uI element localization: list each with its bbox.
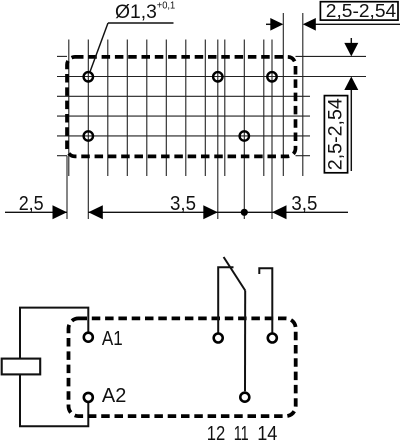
hole 12 (top-middle) xyxy=(213,72,222,81)
svg-text:Ø1,3: Ø1,3 xyxy=(115,2,157,23)
svg-text:3,5: 3,5 xyxy=(291,192,317,215)
svg-text:2,5: 2,5 xyxy=(19,192,44,215)
svg-text:12: 12 xyxy=(207,422,226,441)
arrow down-pointing (tip y=56.4) xyxy=(344,43,358,57)
arrow up-pointing (tip y=76.5) xyxy=(344,77,358,91)
grid horizontal lines xyxy=(57,56,366,155)
terminal A2 xyxy=(84,393,93,402)
svg-text:2,5-2,54: 2,5-2,54 xyxy=(326,98,347,170)
arrow left-pointing (tip at x=302.8) xyxy=(303,18,316,31)
coil wire loop xyxy=(20,308,88,427)
hole A1 (top-left) xyxy=(84,72,93,81)
svg-text:14: 14 xyxy=(257,422,277,441)
extension lines for top-right dimension xyxy=(283,13,303,40)
junction dot at pin 11 column xyxy=(241,209,248,216)
contact 14 wire xyxy=(259,268,272,333)
arrow right-pointing (tip x=217.8) xyxy=(203,205,218,219)
arrow right-pointing (tip x=67) xyxy=(53,205,68,219)
coil box xyxy=(2,359,41,375)
svg-text:+0,1: +0,1 xyxy=(157,0,176,11)
hole A2 (bottom-left) xyxy=(84,131,93,140)
hole row lines xyxy=(57,77,366,136)
svg-text:2,5-2,54: 2,5-2,54 xyxy=(326,0,396,21)
terminal 11 xyxy=(240,393,249,402)
contact 11 wire xyxy=(244,291,246,392)
relay outline (dashed bold rounded rect) xyxy=(67,57,296,156)
terminal 12 xyxy=(214,334,223,343)
arrow left-pointing (tip x=271.5) xyxy=(272,205,287,219)
terminal A1 xyxy=(84,333,93,342)
svg-text:3,5: 3,5 xyxy=(170,192,196,215)
svg-text:A2: A2 xyxy=(102,385,126,407)
grid vertical lines (2.54mm raster) xyxy=(69,40,303,177)
contact 12 wire xyxy=(218,267,233,333)
svg-text:A1: A1 xyxy=(102,328,123,350)
extension line left edge xyxy=(66,156,68,219)
switch blade (11 to 12) xyxy=(224,257,246,291)
hole 11 (bottom-middle) xyxy=(240,131,249,140)
right-side vertical dimension xyxy=(350,38,352,171)
bottom dimension line xyxy=(5,211,67,213)
leader line for hole diameter xyxy=(90,23,174,72)
top-right dimension line xyxy=(266,23,400,25)
label box 2,5-2,54 (right side, rotated) xyxy=(324,96,347,173)
terminal 14 xyxy=(268,334,277,343)
svg-text:11: 11 xyxy=(234,422,249,441)
pin column lines (extend to bottom dimension line) xyxy=(88,40,272,220)
relay outline (dashed) xyxy=(69,318,296,416)
hole 14 (top-right) xyxy=(267,72,276,81)
arrow right-pointing (tip at x=283.3) xyxy=(270,18,283,31)
arrow left-pointing (tip x=88.3) xyxy=(88,205,103,219)
label box 2,5-2,54 (top right) xyxy=(320,2,398,20)
